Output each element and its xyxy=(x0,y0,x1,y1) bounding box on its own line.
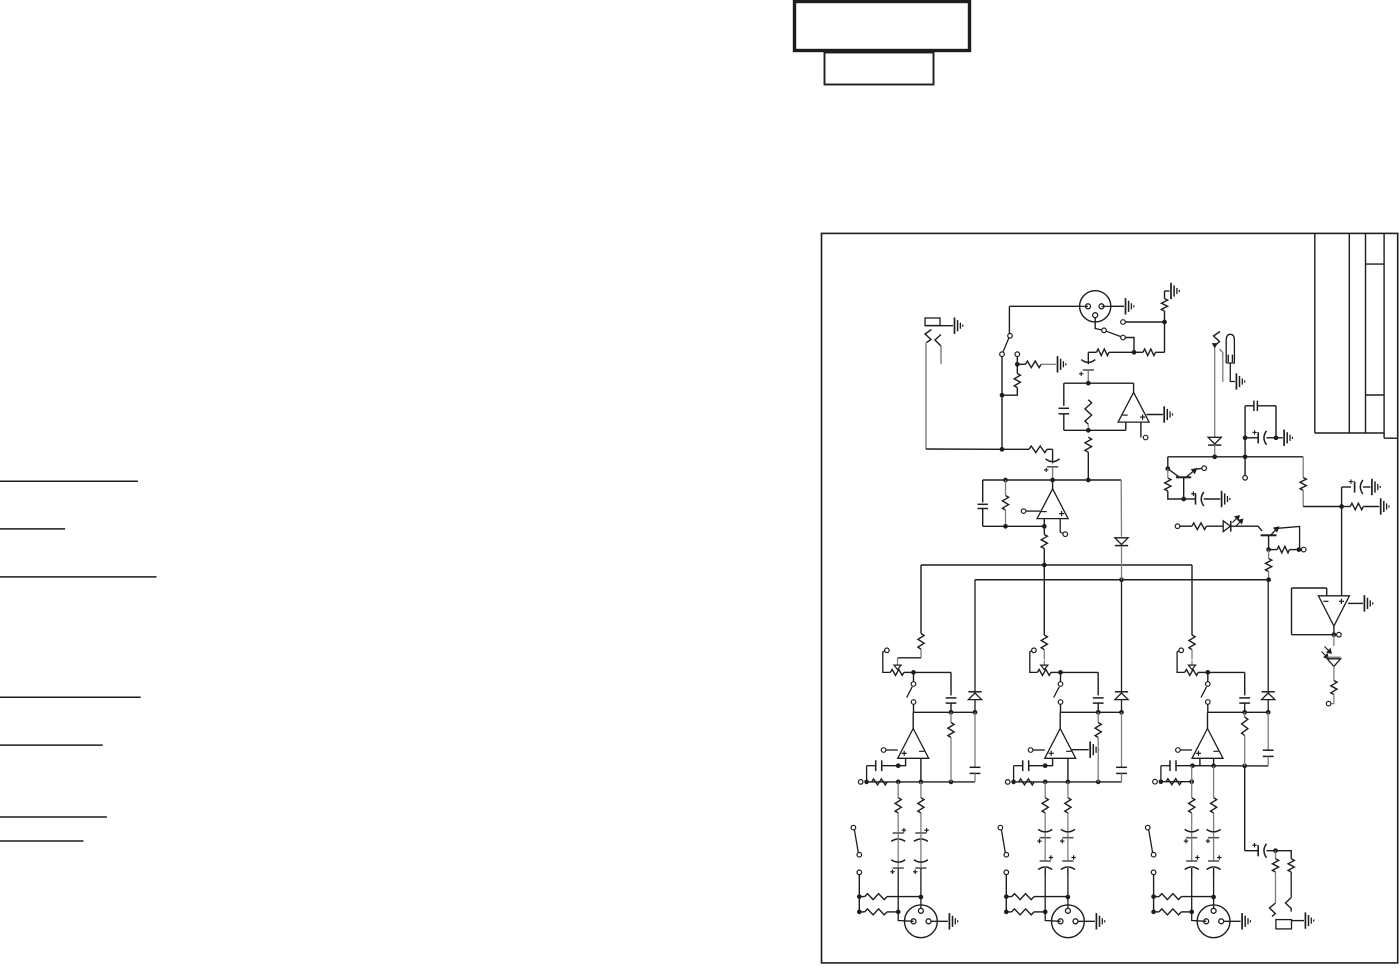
channel 3 pad resistor lower xyxy=(1159,909,1181,915)
wire XLR to corner xyxy=(1009,305,1079,307)
op-amp U1 xyxy=(1118,392,1149,422)
U3 output node xyxy=(1333,626,1335,635)
wire node up to ecap xyxy=(1341,487,1343,507)
resistor R6 U1 out xyxy=(1085,437,1092,452)
channel 1 pot node xyxy=(904,671,914,673)
wire to ground C4 xyxy=(1276,437,1283,439)
resistor R9 Q1 xyxy=(1165,478,1171,491)
channel 1 XLR output xyxy=(905,905,938,938)
channel 1 XLR ground xyxy=(931,920,948,922)
headphone jack tip contact xyxy=(1270,903,1276,917)
wire node down to U3 plus xyxy=(1341,507,1343,596)
node C4 right xyxy=(1274,435,1279,440)
node U2 R6 join xyxy=(1086,478,1091,483)
top box small xyxy=(825,53,934,85)
terminal pad line xyxy=(1121,320,1126,325)
channel 3 pad resistor upper xyxy=(1159,894,1181,900)
channel 1 level pot xyxy=(890,669,904,675)
node bus B Q2 xyxy=(1266,577,1271,582)
headphone feed wire xyxy=(1244,766,1246,851)
Q2 collector xyxy=(1268,535,1270,549)
channel 1 lower rail xyxy=(858,780,863,785)
wire to ground phantom xyxy=(1165,290,1170,292)
resistor R13 xyxy=(1014,374,1020,388)
terminal U3 out xyxy=(1337,632,1342,637)
diode D1 xyxy=(1208,437,1221,444)
capacitor C4 electrolytic xyxy=(1257,432,1259,443)
node pad join xyxy=(1000,393,1005,398)
wire R7 to node xyxy=(1303,506,1341,508)
terminal R13 top xyxy=(1015,352,1020,357)
channel 3 cap C xyxy=(1239,697,1250,699)
channel 1 op-amp xyxy=(898,729,929,759)
channel 1 R below cap-col xyxy=(950,712,952,722)
channel 3 ecap pair at x=1214 xyxy=(1207,829,1221,832)
channel 2 plus pin xyxy=(1045,758,1052,765)
wire terminal to node xyxy=(1125,321,1164,323)
left rule line 2 xyxy=(0,528,65,530)
wire lamp to ground xyxy=(1230,363,1235,382)
ground C5 xyxy=(1371,479,1373,495)
channel 1 ecap pair at x=898 xyxy=(902,829,906,831)
node switch drop xyxy=(1000,447,1005,452)
node supply cap xyxy=(1243,454,1248,459)
terminal LED drive xyxy=(1175,524,1180,529)
channel 1 rail to cap xyxy=(914,671,952,673)
channel 1 summing rail xyxy=(914,711,976,713)
U2 box bottom xyxy=(983,525,1045,527)
op-amp U2 xyxy=(1037,489,1068,519)
wire supply rail right down xyxy=(1302,457,1304,478)
resistor R5 U1 feedback xyxy=(1085,400,1092,424)
pad switch S1b lower xyxy=(1008,337,1009,353)
resistor R3 phantom xyxy=(1161,299,1167,312)
resistor R16 U2 feedback xyxy=(1002,496,1008,511)
power contact tip xyxy=(1214,332,1221,345)
Q1 collector xyxy=(1183,477,1185,499)
resistor R4 xyxy=(1143,349,1156,356)
ground R8 xyxy=(1380,498,1382,514)
wire jack tip down xyxy=(925,343,927,450)
wire U3 out down xyxy=(1333,635,1335,646)
headphone jack sleeve xyxy=(1276,920,1292,929)
node C4 left xyxy=(1243,435,1248,440)
left rule line 1 xyxy=(0,480,138,482)
wire R18 to terminal xyxy=(1331,695,1334,704)
channel 2 ecap pair at x=1068 xyxy=(1061,829,1075,832)
ground jack sleeve xyxy=(954,318,956,334)
bus A xyxy=(921,564,1192,566)
resistor R12 to bus xyxy=(1266,559,1272,572)
terminal U2 minus input xyxy=(1021,509,1026,514)
left rule line 3 xyxy=(0,576,157,578)
ground U3 xyxy=(1348,602,1363,604)
channel 1 left switch xyxy=(851,825,856,830)
channel 2 pot node xyxy=(1051,671,1061,673)
op-amp U3 xyxy=(1318,596,1349,626)
wire node down xyxy=(1164,322,1166,352)
left rule line 7 xyxy=(0,840,84,842)
channel 3 bus B drop xyxy=(1267,580,1269,692)
channel 2 diode-col cap xyxy=(1121,712,1123,767)
channel 1 wires into XLR xyxy=(897,868,899,912)
channel 3 level pot xyxy=(1185,669,1199,675)
channel 3 output resistor B xyxy=(1213,766,1215,798)
channel 1 output resistor B xyxy=(920,782,922,798)
terminal R11 xyxy=(1301,547,1306,552)
terminal U1 plus xyxy=(1143,435,1148,440)
supply rail xyxy=(1168,456,1303,458)
resistor R18 xyxy=(1331,681,1337,695)
channel 2 ecap pair at x=1045 xyxy=(1038,829,1052,832)
channel 3 R below cap-col xyxy=(1244,712,1246,717)
channel 3 input cap xyxy=(1169,760,1171,771)
resistor R7 xyxy=(1300,478,1306,491)
channel 2 pad resistor upper xyxy=(1012,894,1034,900)
channel 2 lower rail xyxy=(1005,780,1010,785)
channel 3 summing rail xyxy=(1208,711,1268,713)
node U2 out xyxy=(1050,478,1055,483)
U2 box left + cap C8 xyxy=(982,480,984,503)
node phantom feed xyxy=(1162,320,1167,325)
headphone jack ring contact xyxy=(1286,898,1292,912)
power contact ring xyxy=(1220,349,1223,382)
channel 1 diode-col cap xyxy=(974,712,976,767)
capacitor C3 xyxy=(1253,401,1255,411)
node U2 R16 top xyxy=(1003,478,1008,483)
node R4-R2 xyxy=(1132,350,1137,355)
U2 minus pin xyxy=(1043,519,1045,527)
wire Q2 emitter loop xyxy=(1278,527,1300,550)
wire supply rail left down xyxy=(1167,457,1169,469)
channel 3 plus pin xyxy=(1193,758,1200,765)
node V+ filter xyxy=(1339,504,1344,509)
capacitor C1 electrolytic xyxy=(1083,369,1094,371)
top box large xyxy=(795,2,970,51)
wire U3 minus from box xyxy=(1292,587,1327,589)
resistor R17 U2 out xyxy=(1041,535,1047,549)
channel 3 diode-col cap xyxy=(1267,712,1269,750)
node U1 bottom xyxy=(1086,428,1091,433)
channel 2 cap C xyxy=(1093,697,1104,699)
wire U1 to ground xyxy=(1147,414,1163,416)
node R11 right xyxy=(1297,547,1302,552)
channel 2 pot terminal xyxy=(1032,648,1037,653)
channel 3 minus pin xyxy=(1213,758,1215,766)
node U1 top-left xyxy=(1086,381,1091,386)
input jack J1 tip contact xyxy=(925,330,932,343)
schematic border frame xyxy=(822,233,1398,963)
input jack J1 ring contact xyxy=(935,335,941,347)
channel 3 output resistor A xyxy=(1191,766,1193,798)
channel 3 plus input xyxy=(1176,748,1181,753)
resistor R10 xyxy=(1192,523,1207,530)
node Q1 collector xyxy=(1181,497,1186,502)
wire jack sleeve to ground xyxy=(925,325,953,327)
node Q2 collector xyxy=(1266,547,1271,552)
wire S1b down xyxy=(1001,356,1003,449)
resistor R2 xyxy=(1097,349,1110,356)
channel 1 plus input xyxy=(881,748,886,753)
ground phantom resistor xyxy=(1170,283,1172,299)
channel 2 summing rail xyxy=(1061,711,1122,713)
channel 2 rail to cap xyxy=(1061,671,1099,673)
resistor R11 xyxy=(1277,546,1289,553)
channel 2 ground stub xyxy=(1071,749,1089,751)
channel 3 pot terminal xyxy=(1179,648,1184,653)
channel 1 plus pin xyxy=(898,758,905,765)
channel 2 output resistor A xyxy=(1044,782,1046,798)
channel 1 minus pin xyxy=(920,758,922,782)
node bus A ch2 xyxy=(1042,563,1047,568)
channel 3 ecap pair at x=1192 xyxy=(1185,829,1199,832)
bus B xyxy=(975,579,1269,581)
channel 1 input cap xyxy=(875,760,877,771)
headphone jack ground xyxy=(1292,920,1305,922)
title block xyxy=(1314,233,1316,433)
channel 3 op-amp xyxy=(1192,729,1223,759)
node Q1 base xyxy=(1165,466,1170,471)
channel 1 bus B drop xyxy=(974,580,976,692)
channel 2 input cap xyxy=(1022,760,1024,771)
left rule line 6 xyxy=(0,816,107,818)
ground XLR input xyxy=(1125,298,1127,314)
resistor R15 input series xyxy=(1029,446,1047,453)
channel 3 XLR ground xyxy=(1224,920,1241,922)
channel 1 pot terminal xyxy=(885,648,890,653)
resistor R8 xyxy=(1350,503,1363,510)
U2 right drop diode D3 xyxy=(1120,480,1122,537)
channel 1 output resistor A xyxy=(897,782,899,798)
node R16 bottom xyxy=(1003,524,1008,529)
channel 2 R below cap-col xyxy=(1097,712,1099,722)
channel 2 bus diode xyxy=(1115,691,1128,693)
U1 plus pin xyxy=(1140,422,1142,437)
wire R2 to C1 xyxy=(1088,351,1096,353)
ground R14 xyxy=(1057,356,1059,372)
wire XLR shell to ground xyxy=(1111,305,1124,307)
lamp LP1 xyxy=(1226,334,1234,363)
headphone ecap xyxy=(1245,850,1259,852)
U1 feedback box bottom xyxy=(1064,429,1126,431)
wire switch to resistor node xyxy=(1125,338,1134,353)
LED D4 meter xyxy=(1325,647,1330,652)
channel 3 left switch xyxy=(1145,825,1150,830)
LED D2 xyxy=(1223,521,1230,532)
channel 3 wires into XLR xyxy=(1191,868,1193,912)
wire contact down to diode xyxy=(1214,348,1216,438)
U1 feedback box top xyxy=(1064,382,1134,384)
channel 2 level pot xyxy=(1037,669,1051,675)
ground U1 xyxy=(1163,406,1165,422)
transistor Q1 xyxy=(1176,476,1191,478)
ground C4 xyxy=(1283,430,1285,446)
channel 1 pad resistor upper xyxy=(865,894,887,900)
channel 2 minus pin xyxy=(1067,758,1069,782)
channel 2 XLR ground xyxy=(1078,920,1095,922)
channel 2 XLR output xyxy=(1052,905,1085,938)
channel 1 fader drop resistor xyxy=(920,565,922,634)
ground C6 xyxy=(1221,491,1223,507)
left rule line 4 xyxy=(0,696,141,698)
U2 top rail xyxy=(983,479,1121,481)
channel 1 cap C xyxy=(946,697,957,699)
channel 1 pad resistor lower xyxy=(865,909,887,915)
capacitor C5 electrolytic xyxy=(1354,481,1356,492)
channel 2 mute switch xyxy=(1060,672,1062,681)
node headphone xyxy=(1273,848,1278,853)
channel 2 plus input xyxy=(1028,748,1033,753)
channel 1 mute switch xyxy=(913,672,915,681)
ground lamp xyxy=(1235,373,1237,389)
channel 3 mid rail to headphone feed xyxy=(1193,765,1269,767)
channel 3 pot node xyxy=(1198,671,1208,673)
XLR input connector J2 xyxy=(1080,291,1111,322)
capacitor C7 electrolytic input xyxy=(1052,449,1054,463)
headphone resistor B xyxy=(1276,851,1292,859)
channel 2 wires into XLR xyxy=(1044,868,1046,912)
wire R13 node xyxy=(1016,356,1018,364)
wire tip bus xyxy=(926,448,1002,450)
channel 1 bus diode xyxy=(968,691,981,693)
channel 3 lower rail xyxy=(1153,779,1158,784)
node supply diode xyxy=(1212,454,1217,459)
channel 2 left switch xyxy=(998,825,1003,830)
U2 plus pin xyxy=(1060,519,1063,534)
capacitor C2 in U1 feedback xyxy=(1059,407,1070,409)
channel 3 fader drop resistor xyxy=(1191,565,1193,635)
channel 1 ecap pair at x=921 xyxy=(924,829,928,831)
channel 2 op-amp xyxy=(1045,729,1076,759)
input jack J1 sleeve xyxy=(925,318,940,326)
node bus B U2 xyxy=(1119,577,1124,582)
wire XLR pin3 to switch xyxy=(1095,318,1102,330)
resistor R14 to ground xyxy=(1026,361,1042,368)
wire LED to Q2 base xyxy=(1231,526,1262,531)
terminal Q1 emitter xyxy=(1202,466,1207,471)
channel 3 mute switch xyxy=(1207,672,1209,681)
channel 2 fader drop resistor xyxy=(1043,565,1045,635)
U1 minus pin xyxy=(1125,422,1127,430)
channel 3 bus diode xyxy=(1262,691,1275,693)
transistor Q2 xyxy=(1261,534,1277,536)
terminal below supply xyxy=(1244,457,1246,476)
switch S1 pad xyxy=(1102,328,1107,333)
wire LED to resistor xyxy=(1333,666,1335,680)
channel 2 output resistor B xyxy=(1067,782,1069,798)
left rule line 5 xyxy=(0,744,103,746)
channel 3 XLR output xyxy=(1197,905,1230,938)
channel 3 rail to cap xyxy=(1208,671,1245,673)
channel 2 pad resistor lower xyxy=(1012,909,1034,915)
capacitor C6 electrolytic xyxy=(1191,493,1195,495)
headphone resistor A xyxy=(1275,851,1277,859)
